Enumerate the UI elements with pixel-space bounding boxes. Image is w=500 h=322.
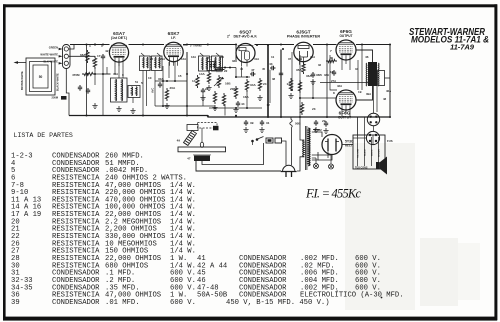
IF transformer T2 (199, 56, 223, 71)
svg-text:LISTA DE PARTES: LISTA DE PARTES (14, 132, 73, 139)
tube V1 6SA7 (109, 43, 128, 66)
capacitor 29 heater bypass (323, 121, 328, 133)
on-off switch on volume control (251, 137, 263, 143)
label 6F6G OUTPUT bottom (338, 111, 351, 120)
wire primary to bus (297, 117, 300, 171)
capacitor AVC bypass (158, 82, 162, 88)
resistor cathode 6J5GT (302, 62, 305, 74)
wire output grids (327, 45, 337, 118)
IF transformer T1 (140, 56, 163, 71)
heading LISTA DE PARTES (14, 132, 73, 139)
node dots inverter (291, 89, 314, 99)
wire 6F6G bottom cathode (342, 114, 350, 117)
svg-text:34: 34 (355, 67, 359, 71)
svg-text:BLACK-WHITE: BLACK-WHITE (57, 73, 60, 91)
svg-text:44: 44 (241, 102, 245, 106)
resistor 35B (298, 80, 301, 93)
resistor 14 screen (192, 75, 199, 88)
svg-text:250M: 250M (52, 96, 59, 100)
svg-text:(1st DET.): (1st DET.) (111, 36, 128, 40)
svg-text:39: 39 (250, 121, 254, 125)
output transformer T3 (366, 62, 379, 86)
ground symbol coil (116, 106, 121, 111)
loop antenna wire color label BROWN-WHITE (21, 71, 24, 90)
tube V3 6SQ7 (236, 44, 255, 67)
svg-text:36A: 36A (306, 74, 312, 78)
svg-text:24: 24 (263, 82, 267, 86)
parts list table (11, 153, 404, 307)
svg-text:14A: 14A (199, 72, 205, 76)
wire feed 6J5GT (267, 45, 269, 118)
svg-text:OUTPUT: OUTPUT (339, 34, 352, 38)
lead label GREEN with arrow (49, 46, 63, 51)
capacitor 39 line bypass (243, 120, 253, 132)
svg-text:50: 50 (39, 75, 43, 79)
resistor 34A (245, 79, 256, 92)
svg-text:11: 11 (271, 55, 275, 59)
wire IFT1 secondary returns (143, 66, 163, 116)
node dots 6SQ7 area (224, 44, 269, 78)
svg-text:43: 43 (269, 62, 273, 66)
capacitor 23 heater bypass (313, 120, 318, 132)
label TOS CONS (355, 167, 368, 170)
wire 6SA7 grid row (95, 67, 111, 74)
svg-text:47: 47 (187, 157, 191, 161)
title MODELOS 11-7A1 (411, 35, 489, 45)
node dots ground bus (85, 114, 391, 118)
tuning condenser dashed outline (187, 123, 219, 131)
wire top B+ bus segments (70, 44, 390, 46)
speaker cone (376, 157, 387, 175)
svg-text:13: 13 (287, 82, 291, 86)
label sprinkle small part numbers (97, 49, 369, 123)
svg-text:10: 10 (148, 76, 152, 80)
wire socket drops (374, 86, 378, 113)
svg-text:30: 30 (330, 56, 334, 60)
output transformer secondary box (378, 71, 385, 86)
node dots top bus (94, 43, 391, 45)
ground symbols inverter (288, 79, 315, 98)
wire inverter vertical 2 (291, 52, 293, 90)
volume control body hatched block 47 (187, 154, 210, 161)
wire osc network (95, 60, 133, 103)
ground symbol osc (92, 103, 97, 108)
svg-text:16A: 16A (243, 95, 249, 99)
label 6J5GT PHASE INVERTER (287, 30, 321, 39)
capacitor grid 6SA7 (101, 54, 105, 60)
svg-text:DET-AVC-A.F.: DET-AVC-A.F. (234, 35, 258, 39)
antenna lead-in arrow (14, 61, 27, 64)
label 6SA7 (1st DET.) (111, 31, 128, 40)
tube V7 rectifier 5Y3G (322, 135, 342, 155)
volume control potentiometer 16B (214, 75, 231, 88)
svg-text:PHASE INVERTER: PHASE INVERTER (287, 35, 321, 39)
wire AC cord (282, 128, 292, 165)
diode coupling coil (207, 62, 216, 71)
wire output cathodes link (358, 45, 362, 91)
svg-text:21A: 21A (310, 55, 315, 59)
dust speck (381, 297, 383, 299)
capacitor 44b (279, 48, 284, 77)
svg-text:BROWN-WHITE: BROWN-WHITE (21, 71, 24, 90)
resistor 22 diode load (215, 68, 228, 73)
ground symbol diode (205, 85, 212, 91)
antenna terminal strip (63, 45, 71, 69)
svg-text:46A: 46A (386, 89, 391, 93)
wire chassis ground bus (69, 116, 390, 118)
AC plug (281, 165, 297, 177)
capacitor 18 (330, 70, 336, 76)
lead label BLK-WHITE with arrow (43, 60, 62, 65)
loop antenna wire color label BLACK-WHITE (57, 73, 60, 91)
svg-text:33A: 33A (324, 73, 329, 77)
tube V6 6F6G output bottom (336, 90, 356, 114)
svg-text:30A: 30A (158, 77, 164, 81)
label 6F6G OUTPUT top (339, 29, 352, 38)
svg-text:27A: 27A (331, 79, 336, 83)
svg-text:7: 7 (330, 49, 332, 53)
wire speaker feed (385, 45, 391, 118)
interlock plug 2 (275, 138, 282, 143)
svg-text:22: 22 (224, 69, 228, 73)
node dot antenna bus (85, 43, 87, 45)
svg-text:41A: 41A (254, 57, 259, 61)
wire tuner to bus (201, 128, 203, 142)
svg-text:14B: 14B (297, 57, 302, 61)
capacitor 31 line bypass (259, 120, 269, 132)
ground symbol screen (200, 95, 205, 100)
svg-text:TOS CONS: TOS CONS (355, 167, 368, 170)
capacitor 44 (236, 101, 245, 107)
wire terminal strip to bus (69, 45, 95, 57)
wire screen vertical (186, 52, 188, 116)
resistor 470M (72, 72, 95, 77)
svg-text:18: 18 (330, 70, 334, 74)
label FUS (387, 139, 393, 143)
svg-text:13A: 13A (191, 55, 196, 59)
wire rectifier filament drop (318, 152, 332, 160)
svg-text:28: 28 (205, 87, 209, 91)
resistor 10 (207, 71, 210, 84)
wire HV to rectifier plates (312, 132, 322, 160)
label F.I. = 455 Kc (305, 187, 361, 201)
pilot lamp 1 (314, 158, 319, 169)
svg-text:WHITE: WHITE (371, 149, 373, 156)
svg-text:OUTPUT: OUTPUT (338, 116, 351, 120)
svg-text:48: 48 (383, 97, 387, 101)
ground symbol trimmer (130, 108, 135, 113)
wire volume block lower loop (196, 161, 281, 171)
oscillator coil box L2 (111, 78, 128, 102)
svg-text:F.I. = 455Kc: F.I. = 455Kc (305, 187, 361, 201)
svg-text:34A: 34A (250, 83, 256, 87)
wire tube pin drops (115, 64, 350, 78)
svg-text:17: 17 (97, 54, 101, 58)
wire 6SQ7 vertical (235, 45, 237, 63)
wire inverter vertical 1 (280, 50, 282, 118)
svg-text:32: 32 (318, 63, 322, 67)
node dots 6SK7 area (162, 73, 188, 107)
wire antenna coupling vertical (86, 45, 88, 116)
capacitor osc grid (86, 88, 90, 94)
resistor cathode 6SA7 (93, 56, 96, 69)
capacitor screen bypass (201, 88, 205, 94)
capacitor 47 coupling (250, 68, 256, 76)
svg-text:BLK-WHITE: BLK-WHITE (43, 60, 58, 64)
resistor 20 (234, 86, 237, 99)
power transformer T4 primary (300, 132, 304, 163)
svg-text:38: 38 (272, 77, 276, 81)
oscillator trimmer box L3 (128, 86, 140, 98)
trimmer arrows T1 (141, 53, 161, 57)
resistor 21 (222, 93, 225, 106)
svg-text:20B: 20B (230, 87, 236, 91)
wire diode output (216, 68, 250, 78)
svg-text:16B: 16B (225, 82, 231, 86)
ground symbols AF (212, 95, 262, 112)
svg-text:15: 15 (178, 74, 182, 78)
title 11-7A9 (450, 43, 475, 52)
resistor 24 (258, 78, 266, 91)
svg-text:49A: 49A (113, 72, 118, 76)
label 402 arrow (313, 128, 322, 132)
speaker cable terminal box (353, 135, 385, 169)
svg-text:37: 37 (288, 57, 292, 61)
tuner drive shaft hatched (177, 131, 197, 146)
svg-text:36B: 36B (316, 73, 322, 77)
svg-text:12: 12 (267, 103, 271, 107)
capacitor 43 coupling (267, 62, 276, 107)
svg-text:27: 27 (206, 56, 210, 60)
pilot lamp 2 (329, 158, 334, 169)
svg-text:33: 33 (232, 59, 236, 63)
svg-text:31: 31 (266, 121, 270, 125)
wire plate link 2nd trans (183, 45, 202, 48)
loop antenna L1 (26, 58, 55, 95)
resistor divider (300, 102, 303, 115)
svg-text:47: 47 (251, 68, 255, 72)
power transformer T4 secondary (308, 128, 310, 166)
wire inverter outputs (300, 55, 336, 117)
label 6SQ7 DET-AVC-AF (227, 30, 257, 39)
svg-text:402: 402 (317, 128, 322, 132)
resistor AVC 20A (165, 86, 176, 101)
wire 6SK7 cathode drops (155, 62, 187, 81)
fuse 50B (290, 117, 302, 128)
wire terminal strip feed down (66, 68, 69, 116)
svg-text:AVC: AVC (151, 88, 155, 93)
wire bus to speaker box (358, 117, 365, 137)
wire heater run (209, 107, 262, 109)
wire socket1 stub (373, 126, 375, 132)
svg-text:BLACK: BLACK (363, 148, 366, 156)
chassis bracket bar (178, 142, 226, 152)
svg-text:BROWN: BROWN (378, 149, 380, 157)
resistor 68A (80, 50, 89, 63)
svg-text:19: 19 (358, 90, 362, 94)
resistor 30 grid stopper (326, 56, 337, 63)
svg-text:29: 29 (322, 119, 326, 123)
label 6SK7 I.F. (168, 31, 180, 40)
resistor 13 (287, 78, 293, 91)
svg-text:35A: 35A (296, 68, 302, 72)
label sprinkle extra part numbers (89, 44, 391, 101)
svg-text:46: 46 (365, 55, 369, 59)
wire plate top to T3 (356, 50, 373, 62)
speaker socket P2 (366, 131, 379, 144)
node dots 6SA7 area (86, 43, 104, 75)
svg-text:5: 5 (141, 81, 143, 85)
svg-text:14: 14 (192, 79, 196, 83)
svg-text:12A: 12A (181, 57, 186, 61)
svg-text:GREEN: GREEN (49, 46, 58, 50)
svg-text:2° TRANS: 2° TRANS (190, 45, 202, 48)
svg-text:I.F.: I.F. (171, 36, 176, 40)
svg-text:42: 42 (105, 49, 109, 53)
speaker socket P1 (367, 113, 379, 125)
svg-text:FUS: FUS (387, 139, 393, 143)
svg-text:28A: 28A (219, 55, 224, 59)
svg-text:450 V, B-15 MFD. 450 V.): 450 V, B-15 MFD. 450 V.) (226, 299, 330, 307)
RF choke blob (52, 96, 67, 100)
svg-text:39A: 39A (366, 92, 371, 96)
svg-text:WHITE-WHITE: WHITE-WHITE (40, 53, 58, 57)
svg-text:470M: 470M (72, 73, 80, 77)
trimmer arrows T2 (200, 53, 220, 57)
wire component bus drops (103, 74, 313, 116)
svg-text:8: 8 (333, 91, 335, 95)
svg-text:20A: 20A (170, 86, 176, 90)
wire plate bottom to T3 (356, 86, 373, 100)
svg-text:42A: 42A (337, 84, 342, 88)
svg-text:25: 25 (150, 57, 154, 61)
tube V5 6F6G output top (336, 40, 356, 64)
title STEWART-WARNER (409, 27, 486, 38)
lead label WHITE-WHITE with arrow (40, 53, 62, 58)
wire speaker socket to box (353, 135, 373, 145)
svg-text:26A: 26A (160, 57, 165, 61)
svg-text:49: 49 (177, 139, 181, 143)
wire rectifier output (342, 144, 353, 146)
svg-text:11-7A9: 11-7A9 (450, 43, 475, 52)
svg-text:45: 45 (262, 67, 266, 71)
tube V4 6J5GT (294, 42, 313, 65)
label AVC vertical (151, 88, 155, 93)
feedback wire (320, 82, 368, 84)
svg-text:23: 23 (312, 107, 316, 111)
svg-text:51: 51 (135, 80, 139, 84)
ground symbol AVC (164, 103, 169, 108)
wire transformer to pilot lamps (312, 155, 331, 158)
wire switch loop (202, 142, 264, 165)
interlock plug 1 (266, 138, 273, 143)
capacitor 36B (311, 72, 323, 78)
resistor AF grid (213, 91, 216, 104)
wire AVC junction (155, 105, 215, 107)
tube V2 6SK7 (164, 42, 183, 65)
capacitor padder (78, 85, 82, 91)
svg-text:YEL GRN: YEL GRN (357, 149, 359, 158)
label 5Y3G RECT (345, 140, 354, 148)
power transformer T4 core (305, 126, 307, 170)
